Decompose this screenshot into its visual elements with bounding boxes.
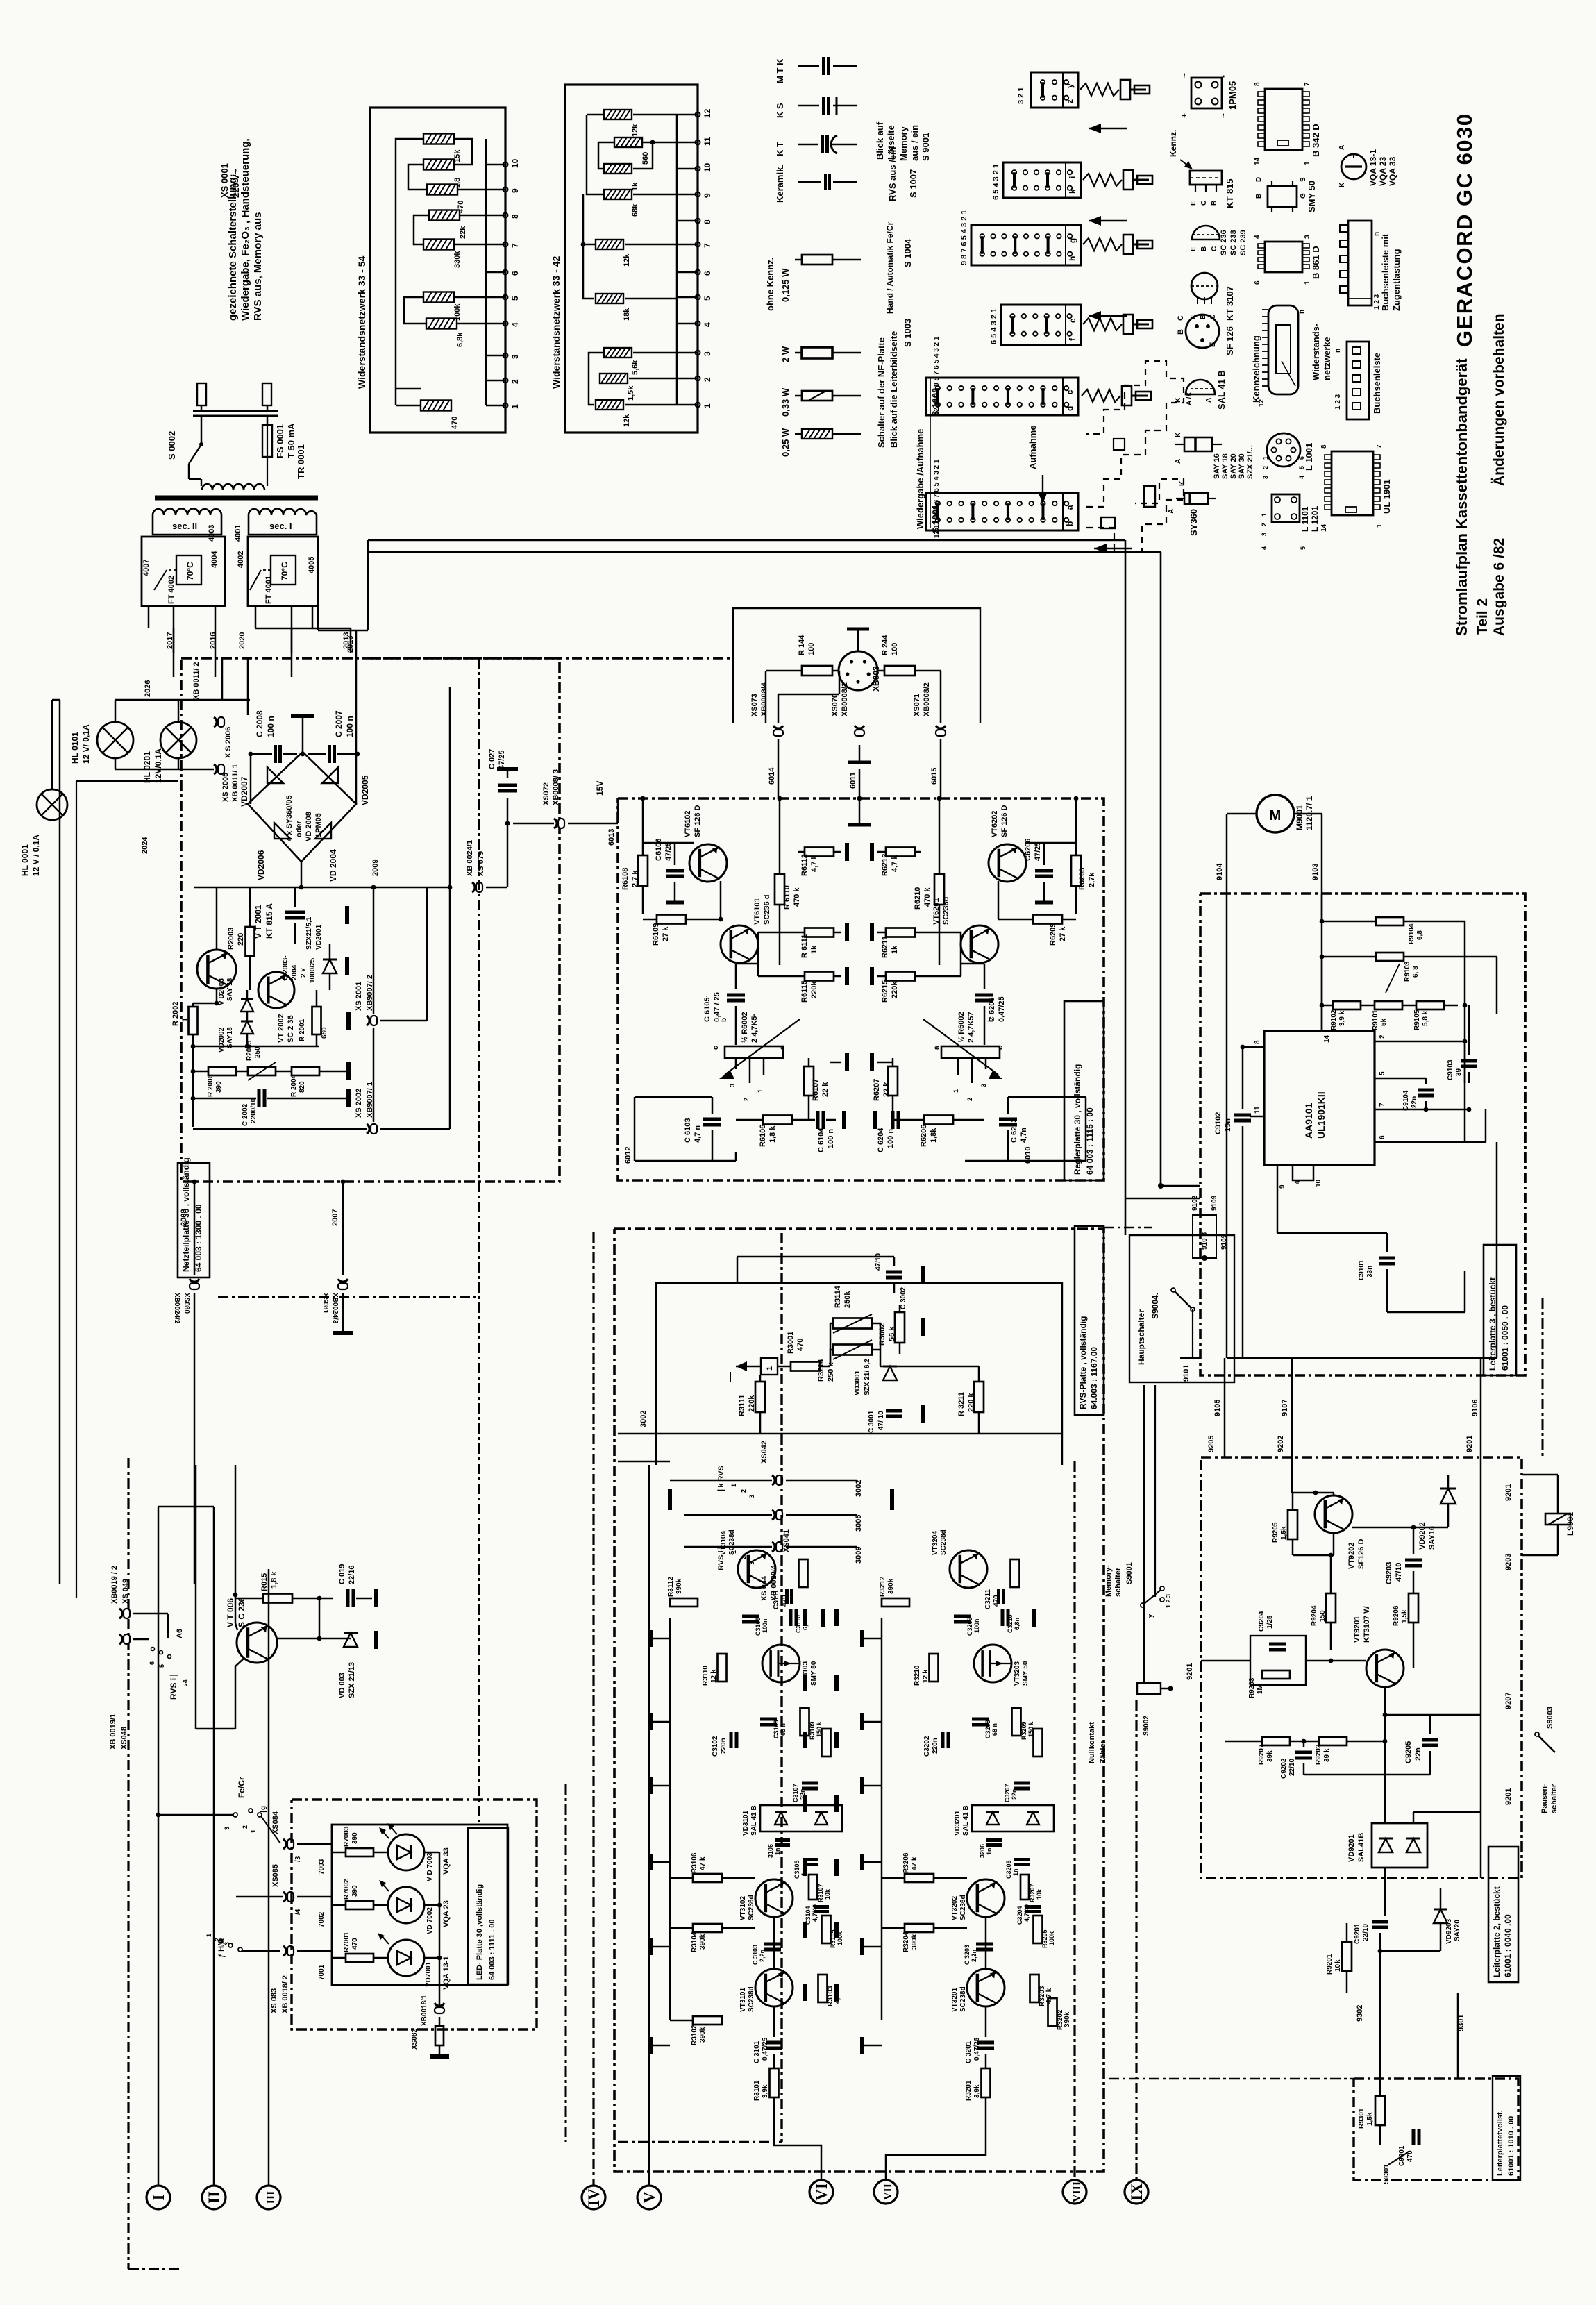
svg-text:6, 8: 6, 8 bbox=[1412, 966, 1420, 978]
svg-text:6012: 6012 bbox=[624, 1147, 632, 1164]
svg-text:sec. I: sec. I bbox=[269, 521, 292, 531]
svg-text:S9003: S9003 bbox=[1546, 1707, 1554, 1729]
zener diode VD003 SZX21/13 bbox=[344, 1633, 358, 1647]
svg-text:S9001: S9001 bbox=[1125, 1562, 1134, 1584]
resistor 560 (network 33-42) bbox=[614, 137, 642, 147]
transistor VT3204 SC238d bbox=[950, 1550, 987, 1588]
svg-text:12k: 12k bbox=[631, 124, 639, 137]
svg-text:R3207: R3207 bbox=[1029, 1884, 1036, 1902]
resistor R6115 220k bbox=[805, 972, 834, 981]
svg-text:8: 8 bbox=[703, 219, 712, 224]
svg-text:M9001: M9001 bbox=[1295, 805, 1304, 830]
switch S1003 actuator bbox=[1083, 318, 1122, 330]
svg-text:9302: 9302 bbox=[1356, 2005, 1364, 2022]
svg-text:XS073: XS073 bbox=[750, 694, 759, 716]
svg-text:9109: 9109 bbox=[1211, 1195, 1218, 1211]
svg-text:~: ~ bbox=[1179, 73, 1189, 78]
network 33-54 internal wires bbox=[396, 139, 423, 389]
terminal bar above bridge bbox=[291, 714, 314, 718]
svg-text:9106: 9106 bbox=[1471, 1400, 1479, 1416]
capacitor C9301 470 bbox=[1412, 2129, 1416, 2145]
svg-text:9: 9 bbox=[703, 193, 712, 198]
svg-text:C 3001: C 3001 bbox=[868, 1410, 875, 1433]
svg-text:a: a bbox=[779, 1046, 787, 1050]
resistor 470 (network 33-54) bbox=[421, 401, 451, 411]
svg-text:R6209: R6209 bbox=[1049, 923, 1057, 946]
svg-text:11: 11 bbox=[1254, 1106, 1261, 1114]
connector XS071 XB0008/2 bbox=[936, 726, 946, 728]
svg-text:VD7001: VD7001 bbox=[425, 1961, 432, 1987]
svg-text:z: z bbox=[1065, 99, 1075, 103]
svg-text:3: 3 bbox=[224, 1827, 230, 1830]
svg-text:VT9201: VT9201 bbox=[1353, 1616, 1361, 1643]
svg-text:1,5k: 1,5k bbox=[1280, 1526, 1288, 1540]
svg-text:100: 100 bbox=[807, 643, 816, 655]
trunk dash-dot IX bbox=[1135, 1700, 1137, 2180]
svg-text:390k: 390k bbox=[699, 1934, 707, 1950]
svg-text:SAY 18: SAY 18 bbox=[1221, 453, 1229, 479]
svg-text:12k: 12k bbox=[623, 414, 631, 427]
fuse FS0001 T50mA bbox=[262, 425, 272, 457]
svg-text:C9104: C9104 bbox=[1402, 1090, 1410, 1111]
terminal above XB003 bbox=[847, 628, 869, 631]
svg-text:R6207: R6207 bbox=[873, 1079, 881, 1101]
resistor R6112 4.7k bbox=[805, 848, 834, 857]
resistor R3209 150k bbox=[1012, 1708, 1021, 1736]
trunk dash-dot x185 bbox=[127, 1458, 129, 2269]
svg-text:C3111: C3111 bbox=[773, 1589, 780, 1609]
svg-text:VT3104: VT3104 bbox=[720, 1531, 728, 1555]
svg-text:XS048: XS048 bbox=[120, 1727, 128, 1750]
svg-text:XS042: XS042 bbox=[760, 1441, 768, 1464]
svg-text:S 1004: S 1004 bbox=[902, 238, 913, 267]
resistor R9205 1.5k bbox=[1288, 1510, 1297, 1539]
transformer winding sec II bbox=[153, 508, 221, 535]
svg-text:10: 10 bbox=[1315, 1179, 1322, 1187]
connector XB0018/1 XS082 bbox=[435, 2003, 444, 2006]
svg-text:3005: 3005 bbox=[855, 1515, 863, 1532]
connector XS042 bbox=[772, 1475, 775, 1485]
svg-text:R 3211: R 3211 bbox=[957, 1392, 966, 1416]
resistor R3211 220k bbox=[974, 1382, 984, 1412]
svg-text:SAL 41 B: SAL 41 B bbox=[750, 1805, 758, 1836]
svg-text:C3209: C3209 bbox=[966, 1617, 973, 1636]
capacitor C3001 47/10 bbox=[886, 1409, 902, 1413]
label box Netzteilplatte bbox=[178, 1163, 210, 1277]
svg-text:sec. II: sec. II bbox=[172, 521, 197, 531]
svg-text:7002: 7002 bbox=[318, 1911, 326, 1927]
svg-text:III: III bbox=[265, 2191, 277, 2204]
svg-text:Buchsenleiste mit: Buchsenleiste mit bbox=[1380, 233, 1391, 311]
svg-text:61001 : 0040 .00: 61001 : 0040 .00 bbox=[1503, 1914, 1513, 1977]
svg-text:R9207: R9207 bbox=[1258, 1744, 1266, 1765]
svg-text:SZX21/5,1: SZX21/5,1 bbox=[305, 916, 313, 950]
svg-text:XB0008/4: XB0008/4 bbox=[760, 682, 768, 716]
svg-text:12V/0,1A: 12V/0,1A bbox=[153, 748, 163, 783]
svg-text:B 861 D: B 861 D bbox=[1311, 246, 1321, 279]
svg-text:VT3101: VT3101 bbox=[739, 1988, 747, 2012]
svg-text:Blick auf: Blick auf bbox=[875, 121, 885, 160]
capacitor C3208 68n bbox=[972, 1718, 989, 1721]
svg-text:220: 220 bbox=[237, 933, 245, 946]
svg-text:390: 390 bbox=[351, 1885, 359, 1897]
svg-text:1n: 1n bbox=[1012, 1868, 1019, 1876]
svg-text:SAL 41 B: SAL 41 B bbox=[1216, 370, 1227, 410]
svg-text:Memory-: Memory- bbox=[1104, 1565, 1113, 1597]
svg-text:XB 0011/ 1: XB 0011/ 1 bbox=[231, 764, 240, 802]
svg-text:VD9202: VD9202 bbox=[1418, 1522, 1427, 1550]
capacitor C6204 100n bbox=[891, 1111, 895, 1129]
IC pin stubs bbox=[1321, 894, 1323, 1031]
svg-text:250k: 250k bbox=[843, 1291, 852, 1308]
svg-text:C 6204: C 6204 bbox=[877, 1128, 885, 1152]
svg-text:6: 6 bbox=[1254, 280, 1261, 285]
RVS i pin labels bbox=[151, 1648, 155, 1651]
thermal fuse FT4002 bbox=[142, 537, 225, 606]
svg-text:Keramik.: Keramik. bbox=[775, 165, 785, 203]
transistor SF126 pinout bbox=[1186, 315, 1219, 348]
svg-text:K S: K S bbox=[775, 103, 785, 118]
IC B342D pinout bbox=[1265, 89, 1302, 150]
inner board rect LED bbox=[332, 1825, 507, 1985]
svg-text:SC 238: SC 238 bbox=[1229, 230, 1238, 255]
capacitor C3205 1n bbox=[1014, 1858, 1030, 1861]
svg-text:1,5k: 1,5k bbox=[1401, 1609, 1409, 1623]
svg-text:1: 1 bbox=[766, 1366, 774, 1371]
svg-text:XB0024/2: XB0024/2 bbox=[173, 1293, 180, 1324]
svg-text:V D2003: V D2003 bbox=[218, 978, 226, 1005]
svg-text:RVS-Platte , vollständig: RVS-Platte , vollständig bbox=[1078, 1316, 1088, 1409]
svg-text:220n: 220n bbox=[720, 1738, 728, 1754]
svg-text:Stromlaufplan Kassettentonband: Stromlaufplan Kassettentonbandgerät bbox=[1453, 358, 1470, 636]
resistor R3104 390k bbox=[693, 1924, 722, 1932]
svg-text:C: C bbox=[1200, 201, 1208, 206]
lamp HL0001 12V/0.1A bbox=[37, 789, 67, 820]
svg-text:2 W: 2 W bbox=[780, 346, 791, 362]
svg-text:7: 7 bbox=[510, 243, 520, 248]
svg-text:1,8k: 1,8k bbox=[930, 1128, 938, 1143]
actuation arrow bbox=[1089, 128, 1127, 130]
svg-text:22 k: 22 k bbox=[882, 1082, 891, 1097]
svg-text:100 n: 100 n bbox=[827, 1129, 835, 1148]
resistor R7001 470 bbox=[346, 1954, 373, 1962]
svg-text:VQA 23: VQA 23 bbox=[1378, 156, 1388, 186]
svg-text:3,9k: 3,9k bbox=[973, 2084, 981, 2098]
resistor 68k (network 33-42) bbox=[604, 190, 632, 199]
svg-text:TR 0001: TR 0001 bbox=[296, 444, 306, 479]
svg-text:9203: 9203 bbox=[1504, 1554, 1513, 1570]
svg-text:XB 0024/1: XB 0024/1 bbox=[466, 840, 474, 876]
XB003 frame bbox=[733, 608, 980, 723]
node VII bbox=[874, 2180, 898, 2204]
resistor R3103 4.7k bbox=[818, 1975, 828, 2002]
svg-text:B: B bbox=[1255, 194, 1263, 199]
svg-text:SC238d: SC238d bbox=[940, 1529, 948, 1555]
svg-text:6,8: 6,8 bbox=[1416, 930, 1424, 940]
svg-text:S 1007: S 1007 bbox=[908, 169, 918, 198]
svg-text:3 2 1: 3 2 1 bbox=[1017, 87, 1025, 104]
resistor R7002 390 bbox=[346, 1901, 373, 1909]
LED VD7001 VQA13-1 bbox=[388, 1940, 424, 1976]
svg-text:9201: 9201 bbox=[1504, 1484, 1513, 1501]
connector XS085 bbox=[283, 1892, 286, 1902]
resistor R3002 56k bbox=[895, 1312, 905, 1343]
svg-text:R9203: R9203 bbox=[1248, 1677, 1256, 1698]
resistor R3203 4.7k bbox=[1030, 1975, 1039, 2002]
capacitor C9205 22n bbox=[1422, 1738, 1438, 1742]
svg-text:VD2007: VD2007 bbox=[240, 776, 249, 807]
diode block VD3201 SAL41B bbox=[972, 1805, 1054, 1832]
resistor R9105 5.8k bbox=[1416, 1001, 1444, 1009]
svg-text:Reglerplatte 30 , vollständig: Reglerplatte 30 , vollständig bbox=[1073, 1064, 1082, 1175]
svg-text:C9201: C9201 bbox=[1354, 1923, 1361, 1944]
label box Leiterplatte 3 bbox=[1484, 1245, 1516, 1375]
wires from transformer block down bbox=[148, 606, 150, 628]
svg-text:5,8 k: 5,8 k bbox=[1422, 1010, 1429, 1026]
svg-text:150: 150 bbox=[1319, 1610, 1327, 1622]
capacitor C9201 22/10 bbox=[1372, 1920, 1388, 1924]
transformer winding sec I bbox=[249, 508, 317, 535]
svg-text:47/10: 47/10 bbox=[875, 1253, 882, 1271]
svg-text:VT3201: VT3201 bbox=[951, 1988, 959, 2012]
svg-text:64 003 : 1111 . 00: 64 003 : 1111 . 00 bbox=[488, 1920, 496, 1980]
svg-text:R 6110: R 6110 bbox=[783, 885, 791, 910]
resistor R3110 12k bbox=[718, 1654, 727, 1682]
resistor R3001 470 bbox=[791, 1362, 820, 1371]
svg-text:VD2002: VD2002 bbox=[218, 1027, 226, 1053]
svg-text:e: e bbox=[1068, 318, 1077, 323]
svg-text:4,7/40: 4,7/40 bbox=[1023, 1904, 1030, 1922]
svg-text:T 50 mA: T 50 mA bbox=[286, 423, 296, 458]
svg-text:6: 6 bbox=[1379, 1135, 1386, 1139]
svg-text:SY360: SY360 bbox=[1188, 509, 1199, 536]
svg-text:d: d bbox=[1065, 406, 1075, 411]
svg-text:1n: 1n bbox=[774, 1847, 781, 1855]
resistor R3101 3.9k bbox=[770, 2068, 779, 2097]
svg-text:a: a bbox=[1065, 505, 1075, 510]
trunk dash-dot VIII bbox=[1073, 1461, 1075, 2180]
svg-text:i: i bbox=[1068, 176, 1077, 178]
svg-text:R6208: R6208 bbox=[1078, 868, 1086, 890]
svg-text:HL 0101: HL 0101 bbox=[70, 732, 80, 764]
svg-text:∘4: ∘4 bbox=[182, 1679, 189, 1687]
board outline LED-Platte bbox=[292, 1800, 537, 2029]
resistor R9204 150 bbox=[1326, 1593, 1336, 1623]
svg-text:KT 815 A: KT 815 A bbox=[264, 903, 274, 939]
svg-text:SC 236: SC 236 bbox=[1220, 230, 1228, 255]
svg-text:12 11 10 9 8 7 6 5 4 3 2 1: 12 11 10 9 8 7 6 5 4 3 2 1 bbox=[933, 336, 941, 415]
dash-dot corner bottom left bbox=[128, 2268, 180, 2270]
svg-text:22n: 22n bbox=[1414, 1747, 1422, 1761]
svg-text:RVS aus /ein: RVS aus /ein bbox=[887, 146, 898, 201]
svg-text:10: 10 bbox=[510, 158, 520, 168]
connector Buchsenleiste mit Zugentlastung bbox=[1348, 221, 1372, 305]
svg-text:SAY18: SAY18 bbox=[226, 1027, 234, 1048]
svg-text:Kennzeichnung: Kennzeichnung bbox=[1251, 335, 1261, 403]
power board node rows bbox=[193, 1046, 319, 1048]
resistor 22k (network 33-54) bbox=[429, 210, 460, 221]
svg-text:2026: 2026 bbox=[144, 680, 152, 697]
svg-text:R6108: R6108 bbox=[621, 868, 630, 890]
terminal bars RVS input bbox=[617, 1433, 619, 1435]
svg-text:∣ k RVS: ∣ k RVS bbox=[717, 1466, 725, 1493]
svg-text:R 244: R 244 bbox=[881, 635, 889, 655]
svg-text:2200/10: 2200/10 bbox=[250, 1098, 258, 1123]
svg-text:VT6102: VT6102 bbox=[684, 810, 692, 837]
svg-text:39: 39 bbox=[1455, 1068, 1463, 1076]
svg-text:1PM05: 1PM05 bbox=[314, 813, 323, 837]
RVS top inner frame bbox=[656, 1283, 1062, 1465]
capacitor C3104 47/40 bbox=[814, 1905, 829, 1909]
svg-text:Blick auf die Leiterbildseite: Blick auf die Leiterbildseite bbox=[889, 331, 899, 448]
svg-text:SC 239: SC 239 bbox=[1239, 230, 1248, 255]
svg-text:R9105: R9105 bbox=[1413, 1009, 1421, 1030]
switch S1001 contact block bbox=[926, 493, 1078, 530]
svg-text:VD2006: VD2006 bbox=[256, 850, 266, 880]
svg-text:4: 4 bbox=[1298, 476, 1305, 479]
svg-text:XB0008/ 3: XB0008/ 3 bbox=[552, 769, 560, 805]
lamp HL0101 12V/0.1A bbox=[97, 722, 133, 758]
svg-text:R3110: R3110 bbox=[702, 1666, 709, 1686]
svg-text:R3002: R3002 bbox=[878, 1323, 887, 1346]
svg-text:V D 7003: V D 7003 bbox=[426, 1852, 434, 1881]
svg-text:22 k: 22 k bbox=[821, 1082, 830, 1097]
svg-text:SF 126 D: SF 126 D bbox=[694, 805, 702, 837]
svg-text:X S 2006: X S 2006 bbox=[224, 727, 233, 758]
capacitor C3107 22n bbox=[802, 1782, 818, 1785]
svg-text:Nullkontakt: Nullkontakt bbox=[1088, 1722, 1096, 1763]
svg-text:4,7/40: 4,7/40 bbox=[812, 1904, 818, 1922]
svg-text:B 342 D: B 342 D bbox=[1311, 124, 1321, 157]
svg-text:R3001: R3001 bbox=[787, 1332, 795, 1354]
svg-text:R9301: R9301 bbox=[1358, 2108, 1366, 2129]
svg-text:2: 2 bbox=[703, 377, 712, 382]
svg-text:R3114: R3114 bbox=[834, 1285, 842, 1308]
svg-text:B: B bbox=[1211, 201, 1218, 206]
svg-text:VT 2002: VT 2002 bbox=[277, 1014, 285, 1043]
svg-text:22/10: 22/10 bbox=[1362, 1924, 1370, 1941]
svg-text:61001 : 0050 . 00: 61001 : 0050 . 00 bbox=[1500, 1305, 1510, 1371]
svg-text:VD 2004: VD 2004 bbox=[328, 849, 338, 882]
svg-text:SMY 50: SMY 50 bbox=[810, 1661, 818, 1686]
svg-text:SF 126 D: SF 126 D bbox=[1000, 805, 1009, 837]
svg-text:FS 0001: FS 0001 bbox=[275, 424, 285, 458]
resistor 18k (network 33-42) bbox=[596, 294, 623, 303]
svg-text:VT6101: VT6101 bbox=[753, 898, 762, 925]
node II bbox=[202, 2186, 226, 2209]
svg-text:K: K bbox=[1338, 182, 1346, 187]
wire 2013 bbox=[355, 630, 358, 755]
resistor R3207 10k bbox=[1020, 1875, 1029, 1900]
transistor KT3107 pinout bbox=[1191, 273, 1218, 299]
svg-text:Zähler: Zähler bbox=[1099, 1740, 1107, 1763]
capacitor C6206 47/25 bbox=[1035, 869, 1053, 873]
svg-text:6: 6 bbox=[149, 1661, 156, 1665]
svg-text:9107: 9107 bbox=[1281, 1400, 1289, 1416]
svg-text:2004: 2004 bbox=[291, 964, 299, 980]
capacitor C6104 100n bbox=[816, 1111, 820, 1129]
svg-text:12 V/ 0,1A: 12 V/ 0,1A bbox=[81, 724, 91, 764]
svg-text:14: 14 bbox=[1320, 523, 1328, 532]
svg-text:7: 7 bbox=[1379, 1103, 1386, 1107]
capacitor C3110 6.8n bbox=[785, 1589, 789, 1604]
svg-text:UL 1901: UL 1901 bbox=[1381, 479, 1392, 514]
svg-text:KT 3107: KT 3107 bbox=[1225, 286, 1235, 321]
svg-text:R 6111: R 6111 bbox=[800, 934, 809, 958]
Hauptschalter box bbox=[1129, 1235, 1234, 1382]
svg-text:SAY 20: SAY 20 bbox=[1229, 453, 1238, 479]
resistor 1,5k (network 33-42) bbox=[600, 374, 628, 383]
svg-text:220k: 220k bbox=[891, 981, 899, 998]
potentiometer R6202 4.7k (right half) bbox=[941, 1046, 1000, 1058]
capacitor C3203 2.2n bbox=[976, 1943, 993, 1946]
svg-text:C 2002: C 2002 bbox=[242, 1103, 249, 1126]
svg-text:KT 815: KT 815 bbox=[1225, 178, 1235, 208]
svg-text:4,7 n: 4,7 n bbox=[694, 1125, 702, 1143]
svg-text:g: g bbox=[1068, 238, 1077, 243]
capacitor C3102 220n bbox=[730, 1732, 733, 1748]
svg-text:VD3201: VD3201 bbox=[954, 1810, 961, 1836]
zener diode VD2001 SZX21/51 bbox=[323, 959, 337, 973]
svg-text:VIII: VIII bbox=[1071, 2181, 1083, 2202]
transistor VT6102 SF126D bbox=[689, 844, 727, 882]
svg-text:C3202: C3202 bbox=[923, 1736, 931, 1757]
svg-text:12 V / 0,1A: 12 V / 0,1A bbox=[31, 835, 41, 876]
diode VD9202 SAY16 bbox=[1440, 1489, 1456, 1504]
board outline RVS-Platte bbox=[614, 1229, 1104, 2172]
trunk dash-dot vertical x690 (board boundary) bbox=[478, 658, 480, 1826]
connector XB0019/1 XS048 bbox=[119, 1634, 122, 1644]
switch S1004 contact block bbox=[971, 225, 1081, 265]
svg-text:9104: 9104 bbox=[1216, 863, 1224, 880]
LED VD7003 VQA33 bbox=[388, 1834, 424, 1870]
node IV bbox=[582, 2186, 605, 2209]
svg-text:2,2n: 2,2n bbox=[759, 1950, 766, 1962]
svg-text:9201: 9201 bbox=[1465, 1436, 1474, 1452]
svg-text:2 4,7K57: 2 4,7K57 bbox=[967, 1012, 975, 1043]
svg-text:R7002: R7002 bbox=[343, 1879, 351, 1900]
svg-text:Hauptschalter: Hauptschalter bbox=[1136, 1309, 1146, 1365]
capacitor C3209 100n bbox=[954, 1615, 971, 1618]
resistor 330k (network 33-54) bbox=[423, 240, 454, 250]
svg-text:3106: 3106 bbox=[767, 1844, 774, 1858]
svg-text:4,7 k: 4,7 k bbox=[1045, 1988, 1053, 2004]
svg-text:100n: 100n bbox=[762, 1618, 768, 1633]
svg-text:1: 1 bbox=[757, 1089, 764, 1093]
resistor R3107 10k bbox=[809, 1875, 817, 1900]
svg-text:SC238d: SC238d bbox=[748, 1986, 755, 2012]
svg-text:C: C bbox=[1177, 315, 1185, 321]
resistor 1k (network 33-42) bbox=[604, 164, 632, 174]
svg-text:VD2001: VD2001 bbox=[315, 924, 323, 950]
wires lamp section bbox=[115, 700, 117, 722]
svg-text:7: 7 bbox=[1304, 82, 1311, 86]
svg-text:C3108: C3108 bbox=[773, 1720, 780, 1738]
svg-text:R3204: R3204 bbox=[902, 1931, 910, 1952]
resistor R6110 470k bbox=[775, 874, 784, 905]
svg-text:C 6104: C 6104 bbox=[817, 1128, 825, 1152]
resistor R6106 1.8k bbox=[763, 1116, 792, 1125]
switch S1007 contact block bbox=[1003, 162, 1081, 198]
svg-text:C3207: C3207 bbox=[1004, 1784, 1011, 1802]
dash-dot vertical right of Leiterplatte 3 bbox=[1542, 1298, 1544, 1457]
svg-text:VD 7002: VD 7002 bbox=[426, 1907, 434, 1934]
svg-text:y: y bbox=[1147, 1614, 1154, 1618]
wires motor bbox=[1227, 813, 1257, 815]
resistor R3204 390k bbox=[905, 1924, 934, 1932]
node box 1 bbox=[761, 1358, 778, 1375]
capacitor C027 47/25 bbox=[498, 784, 517, 787]
